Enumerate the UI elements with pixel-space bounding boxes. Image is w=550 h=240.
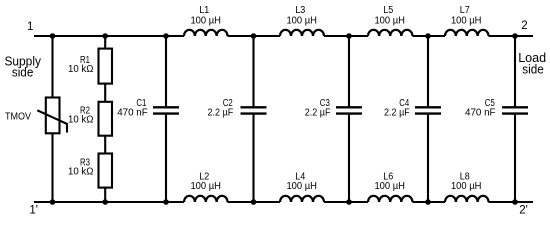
resistor R1 [99, 49, 113, 84]
wire C3 bottom lead [348, 114, 350, 202]
svg-text:2.2 µF: 2.2 µF [208, 107, 234, 118]
svg-text:side: side [522, 62, 544, 77]
inductor L8 [445, 196, 489, 202]
junction dot bottom C5 [512, 199, 518, 205]
wire top rail segment 2 [228, 35, 281, 37]
inductor L5 [368, 30, 412, 36]
svg-text:470 nF: 470 nF [465, 107, 496, 118]
wire C5 bottom lead [514, 114, 516, 202]
inductor L4 [280, 196, 324, 202]
wire top rail segment 3 [324, 35, 368, 37]
wire R2 to R3 [104, 136, 106, 154]
wire TMOV branch bottom [51, 133, 53, 202]
capacitor C2 [241, 107, 267, 113]
svg-text:1: 1 [27, 21, 33, 33]
wire top rail segment 4 [413, 35, 446, 37]
svg-text:10 kΩ: 10 kΩ [68, 167, 94, 178]
svg-text:L1: L1 [199, 5, 209, 16]
svg-text:100 µH: 100 µH [374, 181, 405, 192]
svg-text:100 µH: 100 µH [451, 181, 482, 192]
svg-text:100 µH: 100 µH [286, 181, 317, 192]
inductor L1 [184, 30, 228, 36]
svg-text:100 µH: 100 µH [374, 16, 405, 27]
svg-text:470 nF: 470 nF [117, 107, 148, 118]
junction dot top TMOV [50, 33, 56, 39]
svg-text:2': 2' [519, 205, 528, 217]
svg-text:1': 1' [29, 205, 38, 217]
wire C2 top lead [252, 36, 254, 107]
wire bottom rail segment 3 [324, 201, 368, 203]
junction dot bottom C4 [425, 199, 431, 205]
capacitor C5 [502, 107, 528, 113]
inductor L7 [445, 30, 489, 36]
capacitor C1 [153, 107, 179, 113]
wire R branch top [104, 36, 106, 49]
wire C3 top lead [348, 36, 350, 107]
capacitor C4 [415, 107, 441, 113]
wire top rail segment 1 [34, 35, 184, 37]
svg-text:10 kΩ: 10 kΩ [68, 115, 94, 126]
junction dot top C1 [163, 33, 169, 39]
wire C1 bottom lead [165, 114, 167, 202]
svg-text:2: 2 [521, 20, 527, 32]
svg-text:100 µH: 100 µH [190, 181, 221, 192]
wire C4 bottom lead [427, 114, 429, 202]
junction dot bottom R [102, 199, 108, 205]
junction dot bottom TMOV [50, 199, 56, 205]
wire C4 top lead [427, 36, 429, 107]
inductor L3 [280, 30, 324, 36]
junction dot bottom C2 [251, 199, 257, 205]
wire R branch bottom [104, 188, 106, 202]
svg-text:L5: L5 [383, 5, 393, 16]
svg-text:2.2 µF: 2.2 µF [384, 107, 410, 118]
svg-text:L7: L7 [460, 5, 470, 16]
svg-text:TMOV: TMOV [5, 111, 31, 122]
wire bottom rail segment 5 [489, 201, 534, 203]
svg-text:100 µH: 100 µH [451, 16, 482, 27]
wire bottom rail segment 2 [228, 201, 281, 203]
wire TMOV branch top [51, 36, 53, 98]
inductor L2 [184, 196, 228, 202]
wire C5 top lead [514, 36, 516, 107]
resistor R3 [99, 154, 113, 188]
inductor L6 [368, 196, 412, 202]
svg-text:side: side [12, 65, 34, 80]
junction dot top C3 [346, 33, 352, 39]
wire bottom rail segment 1 [34, 201, 184, 203]
wire R1 to R2 [104, 84, 106, 102]
resistor R2 [99, 102, 113, 136]
wire C2 bottom lead [252, 114, 254, 202]
Supply side label [4, 53, 41, 79]
svg-text:2.2 µF: 2.2 µF [305, 107, 331, 118]
svg-text:L3: L3 [295, 5, 305, 16]
junction dot top C2 [251, 33, 257, 39]
junction dot top C4 [425, 33, 431, 39]
junction dot top C5 [512, 33, 518, 39]
capacitor C3 [336, 107, 362, 113]
svg-text:100 µH: 100 µH [190, 16, 221, 27]
svg-text:10 kΩ: 10 kΩ [68, 64, 94, 75]
svg-text:100 µH: 100 µH [286, 16, 317, 27]
wire top rail segment 5 [489, 35, 534, 37]
junction dot bottom C3 [346, 199, 352, 205]
junction dot bottom C1 [163, 199, 169, 205]
varistor TMOV [37, 98, 67, 134]
wire bottom rail segment 4 [413, 201, 446, 203]
junction dot top R [102, 33, 108, 39]
wire C1 top lead [165, 36, 167, 107]
Load side label [518, 50, 546, 77]
